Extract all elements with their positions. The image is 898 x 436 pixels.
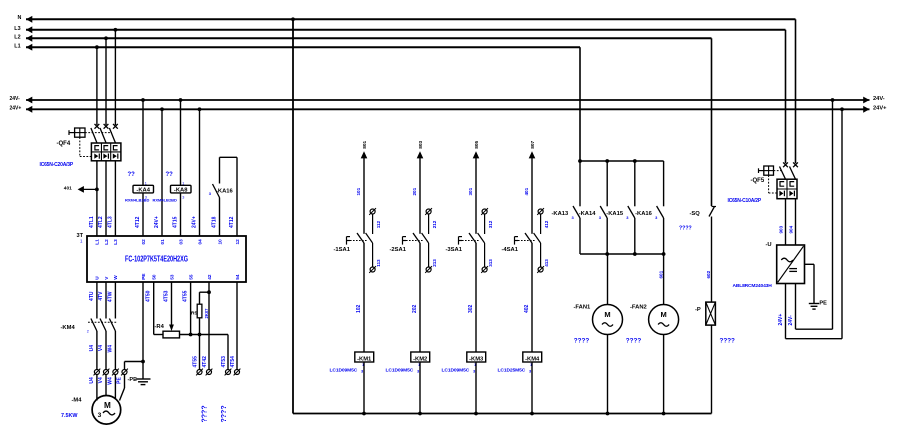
svg-text:4T53: 4T53 (221, 356, 227, 368)
svg-text:801: 801 (362, 140, 368, 148)
svg-text:-KA4: -KA4 (136, 188, 150, 194)
svg-text:M: M (604, 310, 610, 319)
svg-text:W4: W4 (107, 377, 113, 385)
svg-text:4T54: 4T54 (230, 356, 236, 368)
svg-text:10: 10 (217, 239, 222, 245)
svg-text:W4: W4 (107, 345, 113, 353)
svg-text:03: 03 (178, 239, 183, 245)
svg-text:401: 401 (64, 186, 72, 192)
svg-text:55: 55 (188, 274, 193, 280)
svg-text:904: 904 (789, 225, 794, 233)
svg-text:-KA16: -KA16 (635, 211, 653, 217)
svg-text:3: 3 (145, 196, 147, 200)
svg-text:24V-: 24V- (10, 96, 21, 102)
svg-text:-U: -U (766, 242, 772, 248)
svg-text:02: 02 (141, 239, 146, 245)
svg-text:312: 312 (488, 220, 493, 228)
svg-text:601: 601 (658, 270, 663, 278)
svg-text:803: 803 (418, 140, 424, 148)
svg-text:4TL3: 4TL3 (107, 216, 113, 228)
svg-text:L2: L2 (14, 35, 20, 41)
svg-text:4T50: 4T50 (146, 290, 152, 302)
svg-text:-QF4: -QF4 (57, 141, 71, 147)
svg-text:-KM3: -KM3 (469, 356, 484, 362)
svg-text:4TW: 4TW (107, 291, 113, 302)
svg-text:??: ?? (166, 172, 174, 178)
svg-text:4T15: 4T15 (173, 216, 179, 228)
svg-text:212: 212 (432, 220, 437, 228)
svg-text:IC65N-C20A/3P: IC65N-C20A/3P (40, 162, 74, 168)
svg-text:50: 50 (152, 274, 157, 280)
svg-text:-QF5: -QF5 (751, 178, 765, 184)
svg-text:4T55: 4T55 (183, 290, 189, 302)
svg-text:??: ?? (128, 172, 136, 178)
svg-text:413: 413 (544, 259, 549, 267)
svg-text:24V+: 24V+ (192, 216, 198, 228)
svg-text:4T12: 4T12 (229, 216, 235, 228)
svg-text:412: 412 (544, 220, 549, 228)
svg-text:ABL8RCM24043H: ABL8RCM24043H (733, 283, 773, 289)
svg-text:102: 102 (356, 304, 362, 313)
svg-text:-KA8: -KA8 (174, 188, 188, 194)
svg-text:U4: U4 (89, 345, 95, 352)
svg-text:202: 202 (412, 304, 418, 313)
svg-text:LC1D09M5C: LC1D09M5C (386, 367, 414, 373)
svg-text:N: N (18, 15, 22, 21)
svg-text:M: M (104, 401, 111, 410)
svg-text:????: ???? (574, 337, 590, 344)
svg-text:302: 302 (468, 304, 474, 313)
svg-text:12: 12 (235, 239, 240, 245)
svg-text:3: 3 (98, 412, 102, 419)
svg-text:42: 42 (207, 274, 212, 280)
svg-text:4T55: 4T55 (193, 356, 199, 368)
svg-text:-FAN2: -FAN2 (630, 305, 647, 311)
svg-text:????: ???? (679, 226, 692, 232)
svg-text:1: 1 (182, 181, 184, 185)
svg-text:L1: L1 (95, 239, 100, 245)
svg-text:2K07: 2K07 (204, 308, 209, 319)
svg-text:-1SA1: -1SA1 (334, 247, 351, 253)
svg-text:L3: L3 (113, 239, 118, 245)
svg-text:-R4: -R4 (155, 324, 165, 330)
svg-text:-2SA1: -2SA1 (390, 247, 407, 253)
svg-text:807: 807 (530, 140, 536, 148)
svg-text:7.5KW: 7.5KW (61, 413, 78, 419)
svg-text:805: 805 (474, 140, 480, 148)
svg-text:-KM4: -KM4 (525, 356, 540, 362)
svg-text:4T53: 4T53 (164, 290, 170, 302)
svg-text:V4: V4 (98, 377, 104, 383)
svg-text:????: ???? (626, 337, 642, 344)
svg-text:-KM1: -KM1 (357, 356, 372, 362)
svg-text:101: 101 (356, 187, 361, 195)
svg-text:L2: L2 (104, 239, 109, 245)
svg-text:-KM4: -KM4 (61, 325, 76, 331)
svg-text:401: 401 (524, 187, 529, 195)
svg-text:4TL2: 4TL2 (98, 216, 104, 228)
svg-text:602: 602 (706, 270, 711, 278)
svg-text:201: 201 (412, 187, 417, 195)
svg-text:-FAN1: -FAN1 (574, 305, 592, 311)
svg-text:FC-102P7K5T4E20H2XG: FC-102P7K5T4E20H2XG (125, 255, 188, 264)
svg-text:-KA16: -KA16 (216, 188, 234, 194)
svg-text:1: 1 (145, 181, 147, 185)
svg-text:M: M (660, 310, 666, 319)
svg-text:V4: V4 (98, 345, 104, 351)
svg-text:LC1D09M5C: LC1D09M5C (330, 367, 358, 373)
svg-text:LC1D25M5C: LC1D25M5C (498, 367, 526, 373)
svg-text:01: 01 (160, 239, 165, 245)
svg-text:3: 3 (182, 196, 184, 200)
svg-text:313: 313 (488, 259, 493, 267)
svg-text:-3SA1: -3SA1 (446, 247, 463, 253)
svg-text:IC65N-C10A/2P: IC65N-C10A/2P (728, 198, 762, 204)
svg-text:-P: -P (695, 307, 701, 313)
svg-text:4TU: 4TU (89, 291, 95, 301)
svg-text:????: ???? (221, 405, 228, 422)
svg-text:PE: PE (117, 377, 123, 384)
svg-text:4TL1: 4TL1 (89, 216, 95, 228)
svg-text:54: 54 (235, 274, 240, 280)
svg-text:24V-: 24V- (873, 96, 885, 102)
svg-text:PE: PE (141, 273, 146, 279)
svg-text:-SQ: -SQ (690, 211, 701, 217)
svg-text:4T12: 4T12 (135, 216, 141, 228)
svg-text:24V-: 24V- (788, 315, 794, 326)
svg-text:-KA15: -KA15 (606, 211, 624, 217)
svg-text:RXM4LB2BD: RXM4LB2BD (153, 198, 178, 203)
svg-text:4T42: 4T42 (202, 356, 208, 368)
svg-text:-PE: -PE (128, 377, 138, 383)
svg-text:213: 213 (432, 259, 437, 267)
svg-text:-PE: -PE (818, 301, 828, 307)
svg-text:-KA14: -KA14 (579, 211, 597, 217)
svg-text:4T18: 4T18 (212, 216, 218, 228)
svg-text:R5: R5 (191, 311, 197, 317)
svg-text:-KA13: -KA13 (552, 211, 570, 217)
svg-text:402: 402 (524, 304, 530, 313)
svg-text:113: 113 (376, 259, 381, 267)
svg-text:4TV: 4TV (98, 291, 104, 301)
svg-text:2: 2 (87, 330, 89, 334)
svg-text:????: ???? (720, 338, 736, 345)
svg-text:L3: L3 (14, 26, 20, 32)
svg-text:24V+: 24V+ (154, 216, 160, 228)
svg-text:LC1D09M5C: LC1D09M5C (442, 367, 470, 373)
svg-text:24V+: 24V+ (873, 106, 887, 112)
svg-text:W: W (113, 275, 118, 280)
svg-text:301: 301 (468, 187, 473, 195)
svg-text:????: ???? (201, 405, 208, 422)
svg-text:903: 903 (779, 225, 784, 233)
svg-text:112: 112 (376, 220, 381, 228)
svg-text:24V+: 24V+ (10, 105, 22, 111)
svg-text:-4SA1: -4SA1 (502, 247, 519, 253)
svg-text:L1: L1 (14, 44, 20, 50)
svg-text:-M4: -M4 (72, 398, 83, 404)
svg-text:04: 04 (197, 239, 202, 245)
svg-text:24V+: 24V+ (778, 314, 784, 326)
svg-text:U4: U4 (89, 377, 95, 384)
svg-text:53: 53 (169, 274, 174, 280)
